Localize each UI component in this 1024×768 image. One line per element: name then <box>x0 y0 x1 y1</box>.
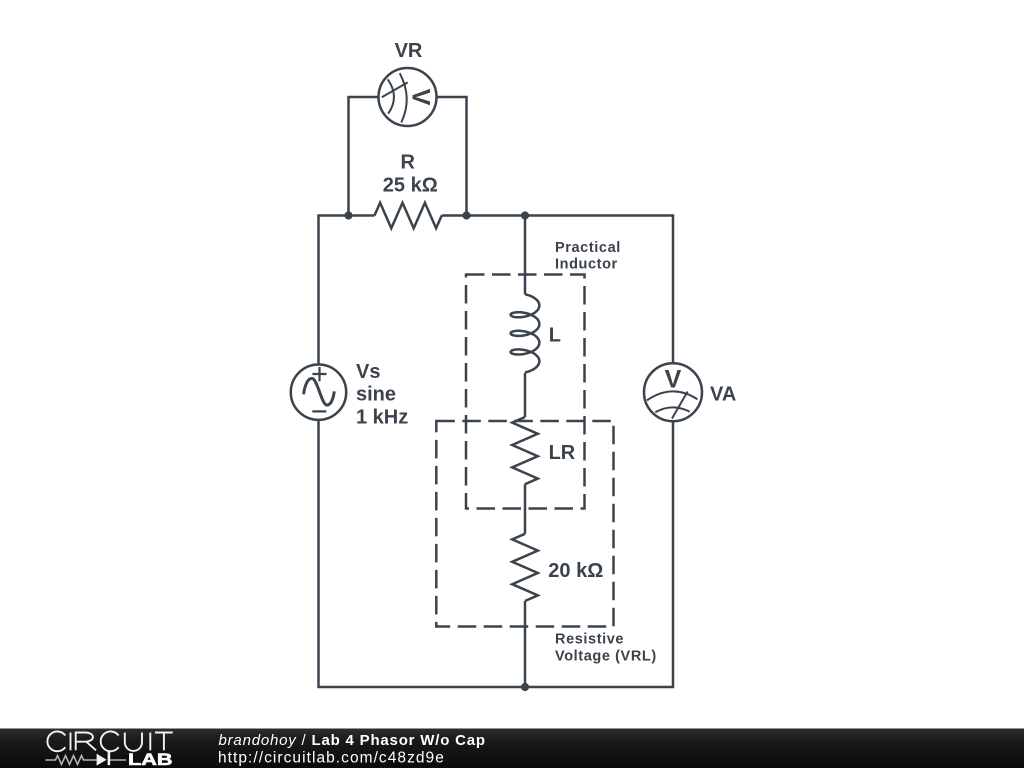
svg-text:Resistive: Resistive <box>555 632 624 648</box>
svg-text:20 kΩ: 20 kΩ <box>548 560 603 582</box>
node junction dot top-middle <box>521 211 529 219</box>
node junction dot top-left <box>344 211 352 219</box>
svg-text:L: L <box>549 325 561 347</box>
svg-text:25 kΩ: 25 kΩ <box>383 174 438 196</box>
svg-text:Vs: Vs <box>356 361 380 383</box>
footer bar <box>0 729 1024 768</box>
logo letter C2 <box>101 731 119 751</box>
logo letter R <box>76 733 96 751</box>
logo letter I1 <box>70 733 72 751</box>
source Vs sine wave <box>304 378 335 405</box>
wire middle branch upper <box>524 216 527 295</box>
resistor R 25 kOhm zigzag <box>375 203 442 229</box>
svg-text:R: R <box>401 151 416 173</box>
wire 20k to bottom <box>524 601 527 687</box>
logo resistor squiggle <box>45 756 96 765</box>
voltmeter VR arc scale 1 <box>400 73 407 122</box>
resistor LR zigzag <box>512 417 538 484</box>
wire top horizontal left segment + left branch upper <box>319 216 375 365</box>
svg-text:brandohoy / Lab 4 Phasor W/o C: brandohoy / Lab 4 Phasor W/o Cap <box>219 732 486 749</box>
dashed box Resistive Voltage <box>436 421 613 627</box>
voltmeter VA needle <box>672 392 688 419</box>
wire bottom horizontal right + right branch lower <box>525 422 673 688</box>
wire left branch lower + bottom horizontal left <box>319 420 526 687</box>
svg-text:Voltage (VRL): Voltage (VRL) <box>555 648 657 664</box>
svg-text:1 kHz: 1 kHz <box>356 406 408 428</box>
svg-text:V: V <box>407 89 435 106</box>
svg-text:Inductor: Inductor <box>555 256 618 272</box>
voltmeter VR needle <box>382 82 408 97</box>
voltmeter VR arc scale 2 <box>388 79 394 113</box>
svg-text:LAB: LAB <box>128 751 173 768</box>
node junction dot bottom-middle <box>521 683 529 691</box>
logo diode triangle <box>97 754 107 766</box>
voltmeter VR circle <box>379 68 437 126</box>
voltmeter VA circle <box>644 363 702 421</box>
source Vs circle <box>291 365 346 420</box>
dashed box Practical Inductor <box>466 275 585 509</box>
logo letter T <box>155 733 173 751</box>
svg-text:Practical: Practical <box>555 240 621 256</box>
wire top horizontal right segment + right branch upper <box>442 216 673 364</box>
source Vs plus sign <box>312 367 326 381</box>
voltmeter VA arc scale 2 <box>655 407 689 412</box>
voltmeter VA arc scale 1 <box>647 391 698 400</box>
node junction dot top-right of R <box>462 211 470 219</box>
svg-text:VA: VA <box>710 384 736 406</box>
svg-text:V: V <box>665 365 682 393</box>
wire LR to 20k <box>524 484 527 534</box>
wire VR loop left <box>349 97 379 216</box>
svg-text:sine: sine <box>356 384 396 406</box>
wire inductor to LR <box>524 373 527 417</box>
source Vs minus sign <box>312 410 326 412</box>
resistor 20 kOhm zigzag <box>512 534 538 601</box>
logo letter U <box>125 733 142 751</box>
svg-text:VR: VR <box>395 40 423 62</box>
wire VR loop right <box>437 97 467 216</box>
logo letter I2 <box>149 733 151 751</box>
inductor L coil <box>511 294 540 372</box>
logo letter C1 <box>47 731 65 751</box>
svg-text:http://circuitlab.com/c48zd9e: http://circuitlab.com/c48zd9e <box>218 750 445 767</box>
svg-text:LR: LR <box>549 442 576 464</box>
logo diode wire right <box>109 759 127 761</box>
logo diode bar <box>108 752 111 766</box>
